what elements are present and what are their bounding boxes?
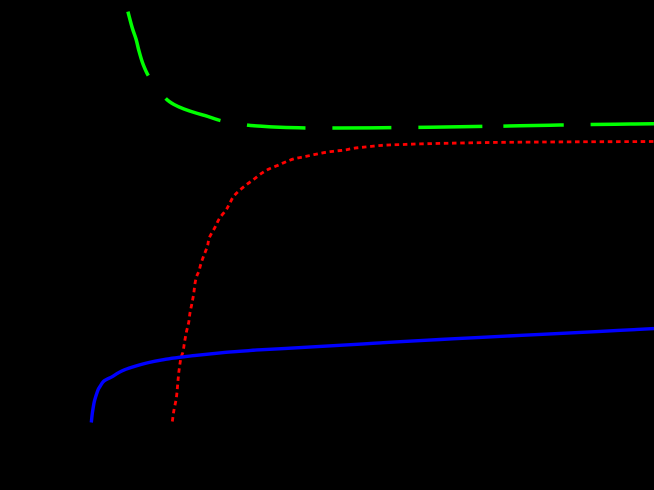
red dotted curve — [172, 142, 654, 422]
blue solid curve — [91, 329, 654, 423]
green dashed curve — [128, 12, 654, 128]
